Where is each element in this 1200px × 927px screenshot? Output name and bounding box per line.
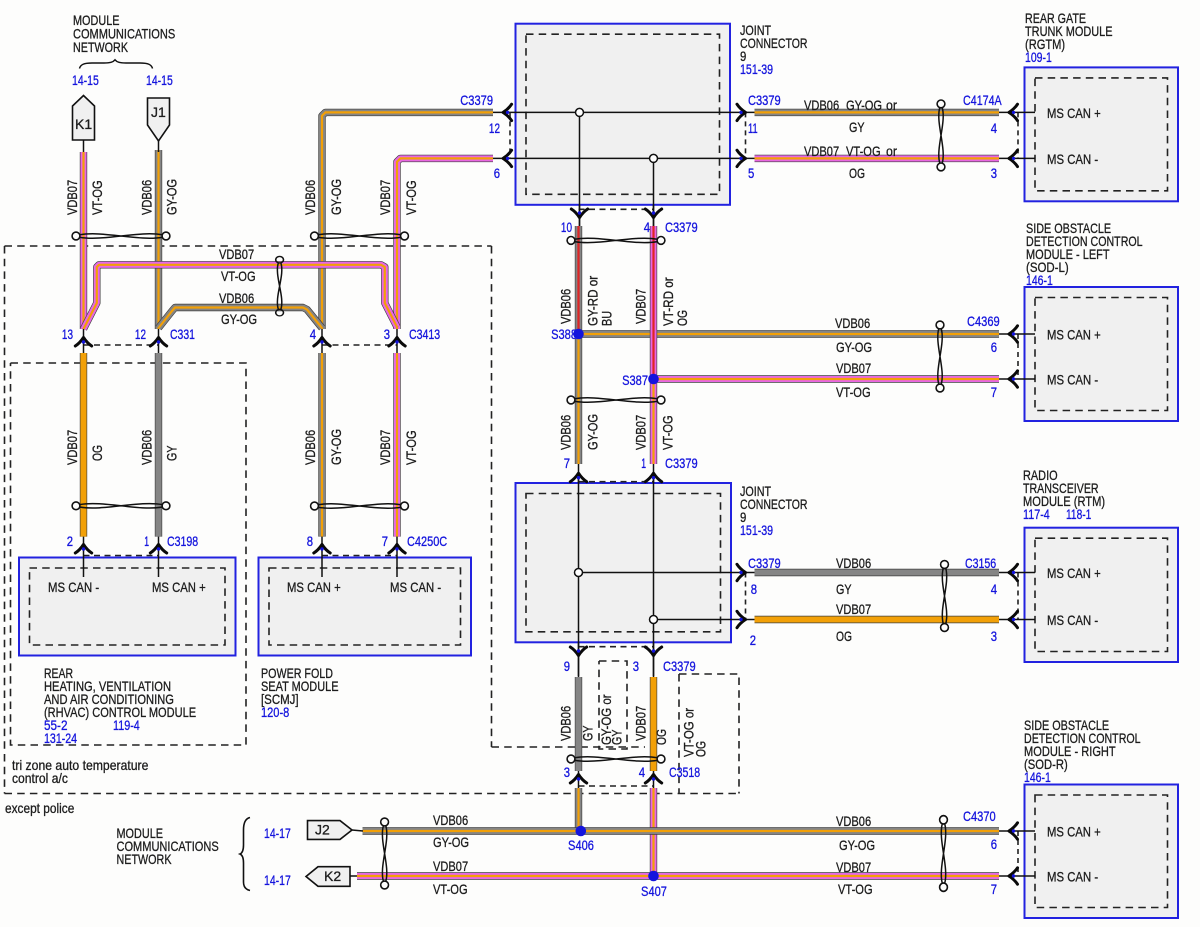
wire junction line pin2 — [654, 619, 732, 621]
svg-text:VDB07: VDB07 — [633, 706, 649, 741]
svg-text:10: 10 — [561, 219, 572, 235]
dashed link C4369 — [1017, 334, 1019, 379]
wire lead C3379-8 — [731, 572, 755, 574]
wire lead module pin — [999, 157, 1035, 159]
svg-text:14-15: 14-15 — [146, 72, 173, 88]
svg-text:GY-OG: GY-OG — [328, 179, 344, 215]
svg-text:J1: J1 — [151, 104, 166, 120]
svg-text:4: 4 — [991, 581, 997, 597]
svg-text:VDB07: VDB07 — [836, 360, 871, 376]
dashed box except-police left — [4, 246, 6, 794]
svg-text:8: 8 — [307, 533, 313, 549]
svg-text:VT-OG: VT-OG — [836, 384, 871, 400]
svg-text:3: 3 — [384, 326, 390, 342]
pin arrow C3518-4 — [645, 775, 661, 784]
connector C3198 outline — [84, 555, 159, 557]
connector C3413 outline — [322, 344, 397, 346]
wire VDB06 GY-OG (J1 drop) — [155, 150, 162, 329]
connector flag J2 — [308, 821, 364, 840]
module box RTM — [1025, 528, 1179, 662]
pin arrow C3379-10 — [571, 209, 587, 218]
wire lead C3413-4 — [321, 329, 323, 353]
svg-text:GY-OG: GY-OG — [328, 429, 344, 465]
wire lead C331-12 — [158, 329, 160, 353]
svg-text:NETWORK: NETWORK — [117, 851, 173, 867]
pin arrow C4369-6 — [1009, 326, 1018, 342]
svg-text:VDB07: VDB07 — [377, 430, 393, 465]
wire VDB06 GY (to C3198-1) — [155, 353, 162, 537]
pin arrow C331-12 — [150, 338, 166, 347]
svg-text:6: 6 — [991, 836, 997, 852]
svg-text:C4370: C4370 — [963, 808, 996, 824]
svg-text:C3156: C3156 — [965, 555, 996, 571]
wire VDB07 VT-OG (S387 to C3379-1) — [650, 379, 657, 464]
wire VDB07 VT-OG (S387 to C4369-7) — [654, 375, 1000, 382]
svg-text:2: 2 — [67, 533, 73, 549]
svg-text:1: 1 — [144, 533, 149, 549]
junction junction node pin10 — [576, 108, 584, 116]
svg-text:VT-OG: VT-OG — [846, 143, 881, 159]
pin arrow C3379-7 — [570, 473, 586, 482]
svg-text:4: 4 — [991, 120, 997, 136]
svg-text:8: 8 — [751, 581, 757, 597]
svg-text:OG: OG — [693, 741, 709, 757]
svg-text:VDB06: VDB06 — [836, 813, 871, 829]
svg-text:VT-OG: VT-OG — [838, 881, 873, 897]
brace module communications network (bottom) — [240, 818, 250, 891]
svg-text:146-1: 146-1 — [1024, 769, 1051, 785]
wire junction line pin6-5 — [516, 157, 731, 159]
svg-text:3: 3 — [633, 658, 639, 674]
svg-text:OG: OG — [653, 729, 669, 745]
svg-text:VDB06: VDB06 — [219, 290, 254, 306]
wire VDB07 VT-OG (C3379-6 drop) — [397, 158, 493, 329]
connector flag K2 — [306, 867, 357, 887]
svg-text:7: 7 — [564, 455, 570, 471]
svg-text:146-1: 146-1 — [1026, 272, 1053, 288]
pin arrow C3379-9 — [570, 647, 586, 656]
svg-text:GY: GY — [580, 725, 596, 741]
dashed box except-police jog — [492, 746, 646, 748]
wire VDB07 OG (C3379-3 to C3518-4) — [650, 677, 657, 771]
wire lead module pin — [999, 378, 1035, 380]
wire lead C3379-4b — [653, 205, 655, 226]
svg-text:C3379: C3379 — [663, 658, 696, 674]
connector C3379 outline (7/1) — [579, 481, 654, 483]
wire junction vertical pin7-9 — [578, 472, 580, 676]
module box SCMJ — [259, 558, 472, 656]
pin arrow C3379-3 — [645, 647, 661, 656]
dashed box tri-zone — [11, 363, 247, 745]
svg-text:3: 3 — [991, 628, 997, 644]
svg-text:C4250C: C4250C — [407, 533, 447, 549]
svg-text:7: 7 — [991, 881, 997, 897]
svg-text:VT-OG: VT-OG — [89, 180, 105, 215]
dashed link C3156 — [1017, 573, 1019, 620]
wire lead C3413-3 — [396, 329, 398, 353]
pin arrow C3379-1 — [645, 473, 661, 482]
svg-text:MS CAN -: MS CAN - — [1047, 372, 1098, 388]
wire VDB07 VT-OG (K1 drop) — [80, 152, 87, 329]
svg-text:GY-OG: GY-OG — [585, 414, 601, 450]
wire lead module pin — [999, 333, 1035, 335]
twisted pair cross-run pair — [276, 256, 284, 315]
pin arrow C3379-8 — [737, 564, 746, 580]
svg-text:VDB06: VDB06 — [302, 430, 318, 465]
svg-text:12: 12 — [135, 326, 146, 342]
wire lead C3379-11 — [730, 111, 755, 113]
svg-text:MS CAN +: MS CAN + — [1047, 105, 1101, 121]
svg-text:MS CAN +: MS CAN + — [287, 579, 341, 595]
svg-text:MS CAN +: MS CAN + — [1047, 565, 1101, 581]
connector flag K1 — [73, 96, 95, 153]
svg-text:VDB06: VDB06 — [558, 289, 574, 324]
twisted pair J2/K2 pair — [381, 818, 389, 889]
svg-text:VDB06: VDB06 — [139, 180, 155, 215]
svg-text:VT-OG: VT-OG — [403, 430, 419, 465]
pin arrow C3379-2 — [737, 611, 746, 627]
pin arrow C4370-7 — [1009, 868, 1018, 884]
module box SOD-L — [1025, 287, 1179, 421]
wire lead C3518-4 — [653, 771, 655, 788]
svg-text:VT-OG: VT-OG — [660, 415, 676, 450]
svg-text:117-4: 117-4 — [1023, 506, 1050, 522]
wire VDB06 GY-OG (C3518-3 to S406) — [575, 788, 582, 831]
wire lead C3379-9 — [578, 642, 580, 677]
svg-text:S407: S407 — [641, 883, 667, 899]
module box RGTM — [1025, 67, 1179, 201]
pin arrow C3156-3 — [1009, 611, 1018, 627]
pin arrow C4369-7 — [1009, 371, 1018, 387]
twisted pair C3379 7/1 pair — [567, 396, 665, 404]
wire lead C3379-3b — [653, 642, 655, 677]
pin arrow C3198-1 — [150, 545, 166, 554]
svg-text:VDB06: VDB06 — [835, 315, 870, 331]
connector C4250C outline — [322, 555, 397, 557]
svg-text:5: 5 — [748, 165, 754, 181]
twisted pair RTM pair — [941, 561, 949, 632]
svg-text:131-24: 131-24 — [44, 730, 77, 746]
svg-text:C3198: C3198 — [167, 533, 198, 549]
svg-text:VDB06: VDB06 — [302, 180, 318, 215]
svg-text:GY-OG: GY-OG — [846, 97, 882, 113]
pin arrow C3156-4 — [1009, 564, 1018, 580]
wire VDB07 VT-OG (C331-13 to C3413-3) — [84, 265, 398, 329]
wire lead SCMJ MS CAN - — [396, 558, 398, 577]
pin arrow C4250C-7 — [389, 545, 405, 554]
wire VDB07 OG (C3379-2 to C3156-3) — [755, 616, 1000, 623]
svg-text:GY-OG: GY-OG — [836, 339, 872, 355]
svg-text:VDB06: VDB06 — [558, 706, 574, 741]
svg-text:VDB07: VDB07 — [377, 180, 393, 215]
svg-text:14-17: 14-17 — [264, 872, 291, 888]
pin arrow C3379-4 — [645, 209, 661, 218]
dashed box alt GY-OG/GY — [599, 661, 627, 749]
svg-text:3: 3 — [991, 165, 997, 181]
wire lead C3379-1 — [653, 464, 655, 483]
svg-text:14-17: 14-17 — [264, 825, 291, 841]
svg-text:GY-OG: GY-OG — [433, 834, 469, 850]
svg-text:151-39: 151-39 — [740, 522, 773, 538]
svg-text:except police: except police — [5, 800, 74, 816]
svg-text:6: 6 — [991, 339, 997, 355]
svg-text:4: 4 — [310, 326, 316, 342]
splice S388 — [573, 329, 584, 340]
wire VDB06 GY (C3379-8 to C3156-4) — [755, 569, 1000, 576]
svg-text:VDB07: VDB07 — [836, 601, 871, 617]
svg-text:151-39: 151-39 — [740, 61, 773, 77]
svg-text:OG: OG — [674, 310, 690, 326]
svg-text:GY-OG: GY-OG — [164, 179, 180, 215]
module box joint connector 9 (lower) — [516, 483, 732, 642]
twisted pair C3198 pair — [72, 502, 170, 510]
pin arrow C3413-4 — [314, 338, 330, 347]
svg-text:VDB06: VDB06 — [558, 415, 574, 450]
svg-text:CONNECTOR: CONNECTOR — [740, 35, 808, 51]
wire junction line pin12-11 — [516, 111, 731, 113]
pin arrow C3379-12 — [503, 104, 512, 120]
svg-text:MS CAN -: MS CAN - — [1047, 869, 1098, 885]
wire lead C3379-12 — [493, 111, 516, 113]
svg-text:CONNECTOR: CONNECTOR — [740, 496, 808, 512]
svg-text:S388: S388 — [551, 326, 577, 342]
svg-text:VDB07: VDB07 — [64, 430, 80, 465]
svg-text:MS CAN +: MS CAN + — [1047, 824, 1101, 840]
wire lead C3379-5 — [730, 157, 755, 159]
svg-text:or: or — [886, 97, 897, 113]
pin arrow C4174A-4 — [1009, 104, 1018, 120]
svg-text:2: 2 — [750, 632, 756, 648]
connector C3518 outline — [579, 785, 654, 787]
svg-text:C3379: C3379 — [665, 455, 698, 471]
svg-text:C4369: C4369 — [967, 313, 1000, 329]
wire VDB07 OG (to C3198-2) — [80, 353, 87, 537]
connector C3379 outline (10/4) — [579, 208, 654, 210]
connector flag J1 — [148, 98, 170, 152]
svg-text:VT-OG: VT-OG — [221, 268, 256, 284]
svg-text:C4174A: C4174A — [963, 92, 1002, 108]
junction junction node pin4 — [650, 154, 658, 162]
svg-text:GY: GY — [609, 729, 625, 745]
wire VDB06 GY-OG (C3379-12 drop) — [322, 112, 493, 329]
wire lead C4250C-8 — [321, 537, 323, 558]
pin arrow C4174A-3 — [1009, 150, 1018, 166]
svg-text:VDB07: VDB07 — [804, 143, 839, 159]
wire lead module pin — [999, 572, 1035, 574]
svg-text:6: 6 — [494, 165, 500, 181]
svg-text:MS CAN -: MS CAN - — [390, 579, 441, 595]
junction junction node pin8 — [575, 569, 583, 577]
svg-text:OG: OG — [849, 165, 865, 181]
twisted pair C3379 10/4 pair — [567, 237, 665, 245]
wire lead C3379-7 — [578, 464, 580, 483]
pin arrow C4250C-8 — [314, 545, 330, 554]
dashed box except-police — [5, 245, 492, 247]
wire VDB06 GY-OG (S388 to C4369-6) — [579, 330, 1000, 337]
wire lead C3198-2 — [83, 537, 85, 558]
wire junction drop pin4 — [653, 158, 655, 226]
wire lead C331-13 — [83, 329, 85, 353]
svg-text:C3379: C3379 — [748, 92, 781, 108]
connector C331 outline — [84, 344, 159, 346]
wire lead module pin — [999, 875, 1035, 877]
wire lead C3518-3 — [578, 771, 580, 788]
wire lead RHVAC MS CAN - — [83, 558, 85, 577]
svg-text:K2: K2 — [324, 868, 341, 884]
wire VDB06 GY-RD (C3379-10 to S388) — [575, 226, 582, 334]
svg-text:or: or — [886, 143, 897, 159]
twisted pair C3413 feed pair — [311, 232, 409, 240]
svg-text:4: 4 — [644, 219, 650, 235]
splice S387 — [648, 374, 659, 385]
dashed box except-police bottom — [5, 793, 740, 795]
twisted pair SOD-L pair — [936, 321, 944, 392]
svg-text:GY: GY — [849, 119, 865, 135]
pin arrow C3379-11 — [737, 104, 746, 120]
svg-text:VDB06: VDB06 — [139, 430, 155, 465]
dashed link C3379 8-2 — [745, 573, 747, 620]
dashed box except-police right — [491, 246, 493, 747]
dashed box alt VT-OG/OG left — [678, 674, 680, 794]
svg-text:VDB07: VDB07 — [433, 858, 468, 874]
dashed box alt VT-OG/OG — [679, 674, 739, 794]
wire lead C3379-2 — [731, 619, 755, 621]
pin arrow C331-13 — [75, 338, 91, 347]
svg-text:11: 11 — [748, 120, 758, 136]
connector C3379 outline (9/3) — [579, 646, 654, 648]
brace module communications network (top) — [80, 60, 153, 69]
wire VDB06 GY-OG (C3379-11 to C4174A-4) — [755, 109, 1000, 116]
wire lead SCMJ MS CAN + — [321, 558, 323, 577]
svg-text:3: 3 — [564, 764, 570, 780]
twisted pair SOD-R pair — [940, 816, 948, 892]
svg-text:12: 12 — [489, 120, 500, 136]
svg-text:GY: GY — [836, 581, 852, 597]
svg-text:C331: C331 — [170, 326, 195, 342]
wire lead module pin — [999, 619, 1035, 621]
svg-text:MS CAN +: MS CAN + — [1047, 327, 1101, 343]
module box RHVAC — [19, 558, 236, 656]
wire lead C4250C-7 — [396, 537, 398, 558]
svg-text:NETWORK: NETWORK — [73, 39, 129, 55]
svg-text:MS CAN -: MS CAN - — [1047, 612, 1098, 628]
svg-text:C3413: C3413 — [409, 326, 440, 342]
module box joint connector 9 (upper) — [516, 24, 731, 205]
twisted pair K1/J1 pair — [72, 232, 170, 240]
svg-text:VDB07: VDB07 — [633, 415, 649, 450]
dashed link C4174A — [1017, 112, 1019, 158]
svg-text:control a/c: control a/c — [12, 770, 68, 786]
pin arrow C3379-6 — [503, 150, 512, 166]
wire lead C3379-10 — [579, 205, 581, 226]
wire VDB06 GY-OG (to C4250C-8) — [318, 353, 325, 537]
svg-text:BU: BU — [599, 311, 615, 326]
wire VDB07 VT-OG (to C4250C-7) — [393, 353, 400, 537]
svg-text:VT-OG: VT-OG — [403, 180, 419, 215]
svg-text:120-8: 120-8 — [261, 704, 289, 720]
wire VDB07 VT-OG (C3379-5 to C4174A-3) — [755, 155, 1000, 162]
svg-text:J2: J2 — [315, 822, 330, 838]
wire lead C3198-1 — [158, 537, 160, 558]
svg-text:GY-OG: GY-OG — [221, 311, 257, 327]
wire VDB07 VT-RD (C3379-4 to S387) — [650, 226, 657, 379]
wire lead RHVAC MS CAN + — [158, 558, 160, 577]
wire junction drop pin10 — [579, 112, 581, 226]
svg-text:VDB06: VDB06 — [804, 97, 839, 113]
pin arrow C3518-3 — [570, 775, 586, 784]
wire VDB07 VT-OG (C3518-4 to S407) — [650, 788, 657, 876]
svg-text:OG: OG — [89, 445, 105, 461]
wire lead module pin — [999, 111, 1035, 113]
svg-text:MS CAN -: MS CAN - — [48, 579, 99, 595]
svg-text:K1: K1 — [75, 116, 92, 132]
svg-text:VDB07: VDB07 — [219, 246, 254, 262]
svg-text:C3379: C3379 — [665, 219, 698, 235]
svg-text:OG: OG — [836, 628, 852, 644]
wire VDB07 VT-OG (K2 to C4370-7) — [357, 872, 999, 879]
splice S407 — [648, 871, 659, 882]
wire VDB06 GY-OG (J2 to C4370-6) — [363, 827, 1000, 834]
module box SOD-R — [1025, 785, 1179, 919]
svg-text:VDB07: VDB07 — [836, 859, 871, 875]
dashed link C4370 — [1017, 831, 1019, 876]
svg-text:7: 7 — [382, 533, 388, 549]
svg-text:C3518: C3518 — [669, 764, 700, 780]
svg-text:VDB06: VDB06 — [433, 812, 468, 828]
svg-text:VDB06: VDB06 — [836, 555, 871, 571]
twisted pair C3518 pair — [567, 755, 665, 763]
svg-text:GY: GY — [164, 445, 180, 461]
wire VDB06 GY-OG (C331-12 to C3413-4) — [159, 308, 323, 329]
wire lead module pin — [999, 830, 1035, 832]
svg-text:13: 13 — [62, 326, 73, 342]
pin arrow C3413-3 — [389, 338, 405, 347]
pin arrow C3379-5 — [737, 150, 746, 166]
svg-text:118-1: 118-1 — [1066, 506, 1091, 522]
svg-text:S406: S406 — [568, 837, 594, 853]
svg-text:VDB07: VDB07 — [64, 180, 80, 215]
wire junction vertical pin1-3 — [653, 472, 655, 676]
svg-text:MS CAN +: MS CAN + — [152, 579, 206, 595]
svg-text:9: 9 — [564, 658, 570, 674]
wire lead C3379-6 — [493, 157, 516, 159]
svg-text:109-1: 109-1 — [1025, 49, 1052, 65]
svg-text:7: 7 — [991, 384, 997, 400]
svg-text:MS CAN -: MS CAN - — [1047, 151, 1098, 167]
wire VDB06 GY (C3379-9 to C3518-3) — [575, 677, 582, 771]
wire junction line pin8 — [579, 572, 732, 574]
wire VDB06 GY-OG (S388 to C3379-7) — [575, 334, 582, 464]
junction junction node pin2 — [650, 616, 658, 624]
twisted pair RGTM pair — [937, 100, 945, 171]
svg-text:4: 4 — [639, 764, 645, 780]
dashed link C3379 11-5 — [745, 112, 747, 158]
pin arrow C3198-2 — [75, 545, 91, 554]
svg-text:119-4: 119-4 — [113, 717, 140, 733]
svg-text:1: 1 — [641, 455, 646, 471]
svg-text:14-15: 14-15 — [72, 72, 99, 88]
splice S406 — [576, 826, 587, 837]
twisted pair C4250C pair — [311, 502, 409, 510]
svg-text:C3379: C3379 — [748, 555, 781, 571]
svg-text:VDB07: VDB07 — [633, 289, 649, 324]
svg-text:S387: S387 — [622, 372, 648, 388]
svg-text:GY-OG: GY-OG — [839, 837, 875, 853]
dashed link C3379 12-6 — [509, 112, 511, 158]
svg-text:VT-OG: VT-OG — [433, 881, 468, 897]
svg-text:C3379: C3379 — [460, 92, 493, 108]
pin arrow C4370-6 — [1009, 823, 1018, 839]
